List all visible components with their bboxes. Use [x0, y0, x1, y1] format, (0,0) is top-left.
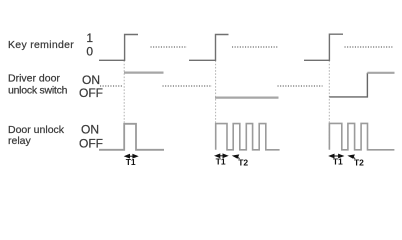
svg-text:T1: T1 — [216, 157, 226, 167]
T1 dimension arrow cycle 1 — [125, 155, 137, 158]
svg-text:Key reminder: Key reminder — [8, 39, 74, 51]
svg-text:ON: ON — [81, 123, 99, 137]
switch OFF segment cycle 2 — [215, 96, 279, 98]
switch ON segment cycle 3 — [367, 72, 394, 74]
relay wave cycle 3 — [329, 123, 394, 149]
T2 leader arrow cycle 3 — [349, 155, 355, 159]
dashed event line 1 — [123, 61, 125, 151]
switch ellipsis dots between cycle 1 and 2 — [163, 85, 213, 87]
svg-text:T1: T1 — [126, 157, 136, 167]
svg-text:1: 1 — [86, 31, 93, 45]
relay wave cycle 2 — [216, 124, 280, 150]
key reminder ellipsis dots 2 — [232, 46, 278, 48]
svg-text:T2: T2 — [238, 157, 248, 167]
dashed event line 2 — [215, 61, 217, 151]
key reminder ellipsis dots 3 — [345, 46, 394, 48]
svg-text:ON: ON — [82, 73, 100, 87]
key reminder wave cycle 3 — [304, 34, 343, 60]
svg-text:0: 0 — [86, 45, 93, 59]
key reminder wave cycle 2 — [189, 35, 229, 61]
svg-text:unlock switch: unlock switch — [8, 85, 68, 97]
switch ON segment cycle 1 — [124, 71, 164, 73]
T1 dimension arrow cycle 2 — [215, 154, 227, 157]
dashed event line 3 — [328, 61, 330, 151]
svg-text:OFF: OFF — [79, 136, 103, 150]
switch ellipsis dots pre cycle 1 — [100, 85, 123, 87]
svg-text:T2: T2 — [354, 157, 364, 167]
switch ellipsis dots between cycle 2 and 3 — [278, 85, 323, 87]
T1 dimension arrow cycle 3 — [330, 154, 343, 157]
svg-text:Driver door: Driver door — [8, 73, 60, 85]
svg-text:relay: relay — [8, 135, 32, 147]
relay wave cycle 1 — [99, 124, 164, 150]
key reminder wave cycle 1 — [99, 35, 138, 61]
svg-text:T1: T1 — [333, 157, 343, 167]
key reminder ellipsis dots 1 — [151, 46, 188, 48]
svg-text:OFF: OFF — [79, 86, 103, 100]
switch OFF then rise cycle 3 — [329, 73, 367, 97]
T2 leader arrow cycle 2 — [233, 155, 239, 159]
